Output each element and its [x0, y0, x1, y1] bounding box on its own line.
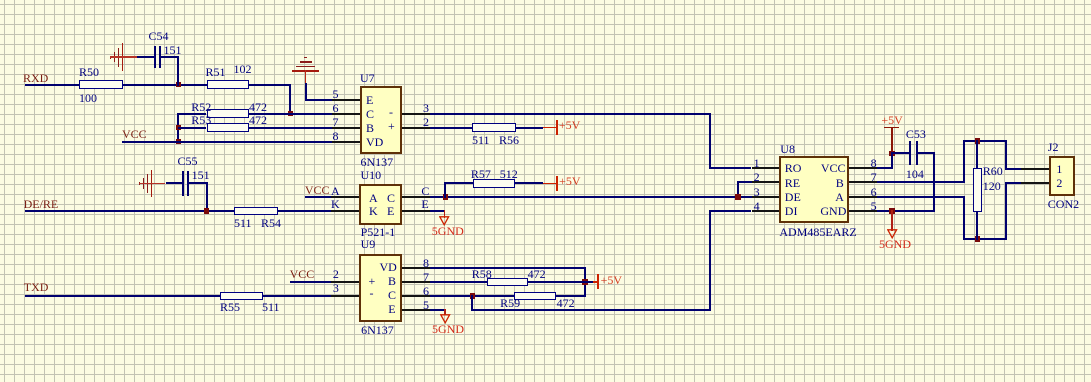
- part value 6N137 (U9): [361, 324, 394, 336]
- junction GND net: [889, 208, 895, 214]
- pin C of U10: [402, 196, 430, 198]
- resistor R55: [220, 292, 263, 301]
- resistor R60: [973, 168, 982, 212]
- value 511 (R56): [472, 134, 490, 146]
- junction R60 top: [975, 138, 981, 144]
- value 151 (C54): [164, 44, 182, 56]
- pin name B (U8): [836, 177, 844, 189]
- wire RXD to R50: [25, 84, 79, 86]
- pin 7 of U8: [849, 181, 877, 183]
- pin 2 of U9: [331, 281, 359, 283]
- power ground 5GND (U9): [444, 309, 446, 315]
- wire R58 to +5V node: [528, 281, 593, 283]
- junction on RXD net at C54 drop: [176, 82, 182, 88]
- wire R52 to U7 pin 6: [249, 113, 332, 115]
- part value P521-1 (U10): [361, 226, 396, 238]
- wire VCC to R52: [178, 113, 206, 115]
- resistor R56: [472, 123, 516, 132]
- connector J2 body: [1049, 156, 1075, 196]
- wire R51 right then down to pin6 net: [249, 84, 291, 86]
- wire A net to J2 pin2: [1005, 182, 1007, 240]
- wire U8 pin2 jog to pin3 net: [738, 181, 752, 183]
- wire R55 to U9 pin 3: [263, 295, 331, 297]
- junction R60 bottom: [975, 236, 981, 242]
- ground (earth) for C54: [110, 56, 111, 59]
- resistor R57: [473, 179, 515, 188]
- pin E of U10: [402, 210, 430, 212]
- label R51: [206, 66, 226, 78]
- wire C55 down to DE/RE net: [189, 182, 206, 184]
- resistor R52: [207, 109, 250, 118]
- label R60: [983, 165, 1003, 177]
- wire R60 top stem: [976, 140, 978, 169]
- pin name E (U9): [388, 303, 395, 315]
- pin 5 of U9: [402, 309, 430, 311]
- pin name VD (U7): [366, 136, 383, 148]
- wire VCC to U9 pin 2: [290, 281, 331, 283]
- wire +5V node to C53: [892, 152, 910, 154]
- resistor R51: [207, 80, 249, 89]
- pin 3 of U9: [331, 295, 359, 297]
- pin 2 of J2: [1021, 182, 1049, 184]
- pin name VD (U9): [380, 261, 397, 273]
- resistor R50: [79, 80, 123, 89]
- pin 6 of U7: [332, 113, 360, 115]
- wire ground down to U7 pin 5: [305, 83, 307, 101]
- junction R51/R52/pin6: [288, 111, 294, 117]
- resistor R58: [487, 278, 529, 287]
- wire TXD branch to U8 pin4: [471, 295, 473, 311]
- power +5V (R56): [543, 127, 557, 129]
- value 102 (R51): [234, 63, 252, 75]
- wire ground to C55: [166, 182, 183, 184]
- value 472 (R59): [557, 297, 575, 309]
- label C53: [906, 128, 926, 140]
- value 120 (R60): [983, 180, 1001, 192]
- ground (earth) for C55: [139, 182, 140, 185]
- value 151 (C55): [192, 169, 210, 181]
- optocoupler U10 body: [359, 184, 403, 225]
- wire R50 to R51 with C54 tap: [123, 84, 207, 86]
- pin name DE (U8): [785, 191, 801, 203]
- wire VCC to R53: [178, 127, 206, 129]
- junction RE/DE tie: [735, 194, 741, 200]
- pin name RE (U8): [785, 177, 800, 189]
- pin name VCC (U8): [821, 162, 846, 174]
- wire VCC vertical feed to R52 R53: [177, 113, 179, 143]
- pin polarity - (U7): [389, 106, 393, 118]
- wire U8 pin7 B to termination: [877, 181, 964, 183]
- value 511 (R54): [234, 217, 252, 229]
- junction VCC row to feed: [176, 139, 182, 145]
- power +5V (R58): [593, 281, 598, 283]
- label J2: [1048, 141, 1059, 153]
- wire U10 C to U8 pin3 (DE/RE net): [430, 196, 752, 198]
- value 511 (R55): [262, 301, 280, 313]
- label R58: [472, 268, 492, 280]
- value 100 (R50): [79, 92, 97, 104]
- wire R60 bottom stem: [976, 211, 978, 240]
- wire R54 to U10 pin K: [278, 210, 331, 212]
- pin name RO (U8): [785, 162, 802, 174]
- pin name A (U8): [835, 191, 844, 203]
- label R55: [220, 301, 240, 313]
- wire U8 pin5 GND net: [877, 210, 934, 212]
- pin A of U10: [331, 196, 359, 198]
- pin number 2 (J2): [1056, 177, 1062, 189]
- label R59: [500, 297, 520, 309]
- pin label C outside U10: [421, 185, 429, 197]
- label U7: [360, 72, 375, 84]
- wire U9 pin7 to R58: [430, 281, 487, 283]
- pin 1 of J2: [1021, 168, 1049, 170]
- junction TXD branch: [470, 293, 476, 299]
- pin name C (U7): [366, 108, 374, 120]
- capacitor C53: [909, 141, 911, 166]
- label R52: [191, 101, 211, 113]
- label R56: [499, 134, 519, 146]
- power +5V (R57): [543, 183, 557, 185]
- label U8: [780, 143, 795, 155]
- wire U9 pin6 to R59: [430, 295, 515, 297]
- label R50: [79, 66, 99, 78]
- pin name GND (U8): [820, 205, 846, 217]
- wire ground to C54: [137, 56, 154, 58]
- part value 6N137 (U7): [361, 156, 394, 168]
- junction R57 tap: [443, 194, 449, 200]
- net label VCC (U7 supply): [122, 128, 147, 140]
- pin 8 of U7: [332, 141, 360, 143]
- value 472 (R58): [528, 268, 546, 280]
- pin 5 of U8: [849, 210, 877, 212]
- pin label E outside U10: [421, 198, 428, 210]
- wire C54 down to RXD net: [161, 56, 178, 58]
- label R53: [191, 114, 211, 126]
- optocoupler U9 body: [359, 254, 402, 322]
- net label TXD: [24, 281, 49, 293]
- transceiver U8 body: [779, 156, 849, 223]
- label C55: [178, 155, 198, 167]
- pin polarity + (U9): [369, 275, 376, 287]
- net label DE/RE: [24, 198, 59, 210]
- capacitor C55: [182, 171, 184, 196]
- wire TXD to R55: [25, 295, 220, 297]
- op-amp U7 optocoupler body: [360, 86, 402, 155]
- wire RXD net label: [23, 72, 48, 84]
- wire VCC to U7 pin 8: [122, 141, 332, 143]
- pin 8 of U8: [849, 167, 877, 169]
- ground (earth) at U7 pin 5: [304, 57, 307, 59]
- pin name C (U10): [387, 192, 395, 204]
- label R54: [261, 217, 281, 229]
- pin 7 of U7: [332, 127, 360, 129]
- pin name K (U10): [369, 205, 378, 217]
- label R57: [471, 168, 491, 180]
- pin label A outside U10: [331, 185, 340, 197]
- pin name E (U10): [387, 205, 394, 217]
- wire C53 down to GND net: [918, 152, 934, 154]
- pin 4 of U8: [752, 210, 780, 212]
- label C54: [149, 30, 169, 42]
- pin 5 of U7: [332, 99, 360, 101]
- pin name B (U9): [388, 275, 396, 287]
- pin 3 of U7: [402, 113, 430, 115]
- wire U9 pin5 to ground: [430, 309, 445, 311]
- wire U7 pin2 to R56: [430, 127, 473, 129]
- value 472 (R53): [249, 114, 267, 126]
- junction +5V node (R58): [582, 279, 588, 285]
- wire U7 pin3 to U8 pin1: [430, 113, 711, 115]
- part value CON2 (J2): [1048, 198, 1079, 210]
- wire R53 to U7 pin 7: [249, 127, 332, 129]
- wire U8 pin6 A to termination: [877, 196, 964, 198]
- pin polarity + (U7): [388, 120, 395, 132]
- label U9: [361, 238, 376, 250]
- pin name C (U9): [388, 289, 396, 301]
- wire R59 to +5V node: [556, 295, 585, 297]
- part value ADM485EARZ (U8): [779, 226, 856, 238]
- power +5V (U8 supply): [881, 114, 902, 126]
- wire R57 to +5V: [515, 182, 543, 184]
- pin name B (U7): [366, 122, 374, 134]
- wire R57 riser: [444, 182, 446, 197]
- pin K of U10: [331, 210, 359, 212]
- wire U8 pin8 to +5V node: [877, 167, 891, 169]
- resistor R54: [234, 207, 278, 216]
- pin name DI (U8): [785, 205, 798, 217]
- value 104 (C53): [906, 168, 924, 180]
- net label VCC (U10): [305, 184, 330, 196]
- capacitor C54: [154, 46, 156, 69]
- value 512 (R57): [500, 168, 518, 180]
- junction C55 on DE/RE net: [204, 208, 210, 214]
- wire VCC to U10 pin A: [305, 196, 331, 198]
- label U10: [361, 169, 382, 181]
- pin 7 of U9: [402, 281, 430, 283]
- junction R53 to VCC feed: [176, 125, 182, 131]
- pin 2 of U7: [402, 127, 430, 129]
- pin 6 of U8: [849, 196, 877, 198]
- junction +5V to C53: [889, 151, 895, 157]
- wire DE/RE to R54: [25, 210, 234, 212]
- pin 1 of U8: [752, 167, 780, 169]
- pin name A (U10): [369, 192, 378, 204]
- net label VCC (U9): [290, 268, 315, 280]
- pin number 1 (J2): [1056, 163, 1062, 175]
- wire U10 E to ground: [430, 210, 445, 212]
- value 472 (R52): [249, 101, 267, 113]
- pin 6 of U9: [402, 295, 430, 297]
- pin 8 of U9: [402, 267, 430, 269]
- wire B net to J2 pin1: [1005, 140, 1007, 170]
- pin 2 of U8: [752, 181, 780, 183]
- resistor R59: [514, 292, 556, 301]
- pin name E (U7): [366, 94, 373, 106]
- wire U9 pin8 to +5V riser: [430, 267, 585, 269]
- pin polarity - (U9): [370, 287, 374, 299]
- wire R56 to +5V: [516, 127, 544, 129]
- power ground 5GND (U8): [891, 210, 893, 231]
- pin 3 of U8: [752, 196, 780, 198]
- power ground 5GND (U10): [444, 210, 446, 218]
- wire termination top bar: [964, 140, 1005, 142]
- pin label K outside U10: [331, 198, 340, 210]
- resistor R53: [207, 123, 250, 132]
- wire termination bottom bar: [964, 238, 1005, 240]
